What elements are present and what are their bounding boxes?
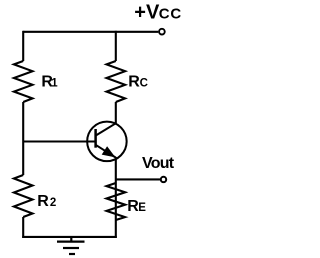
svg-text:CC: CC bbox=[159, 5, 182, 22]
svg-text:R: R bbox=[37, 193, 49, 210]
terminal Vout bbox=[161, 177, 166, 182]
svg-text:R: R bbox=[128, 73, 140, 90]
svg-text:1: 1 bbox=[51, 77, 58, 89]
svg-text:2: 2 bbox=[50, 197, 56, 209]
svg-text:Vout: Vout bbox=[142, 155, 175, 172]
svg-text:+V: +V bbox=[134, 1, 160, 23]
resistor R2 bbox=[14, 175, 33, 217]
wire base bbox=[23, 140, 96, 142]
svg-text:E: E bbox=[138, 202, 146, 214]
wire left column upper bbox=[22, 31, 24, 61]
wire top rail bbox=[23, 31, 158, 33]
wire left column lower bbox=[22, 217, 24, 238]
resistor RE bbox=[107, 183, 126, 220]
wire Vout lead bbox=[116, 178, 161, 180]
wire left column middle bbox=[22, 102, 24, 175]
svg-text:C: C bbox=[140, 77, 148, 89]
wire collector bbox=[115, 102, 117, 124]
wire right column upper bbox=[115, 31, 117, 61]
terminal +VCC bbox=[159, 29, 165, 35]
wire bottom rail bbox=[22, 236, 117, 238]
resistor RC bbox=[107, 61, 126, 102]
resistor R1 bbox=[14, 61, 33, 102]
transistor Q1 bbox=[87, 122, 127, 162]
ground bbox=[57, 237, 85, 254]
wire emitter bbox=[115, 157, 117, 238]
